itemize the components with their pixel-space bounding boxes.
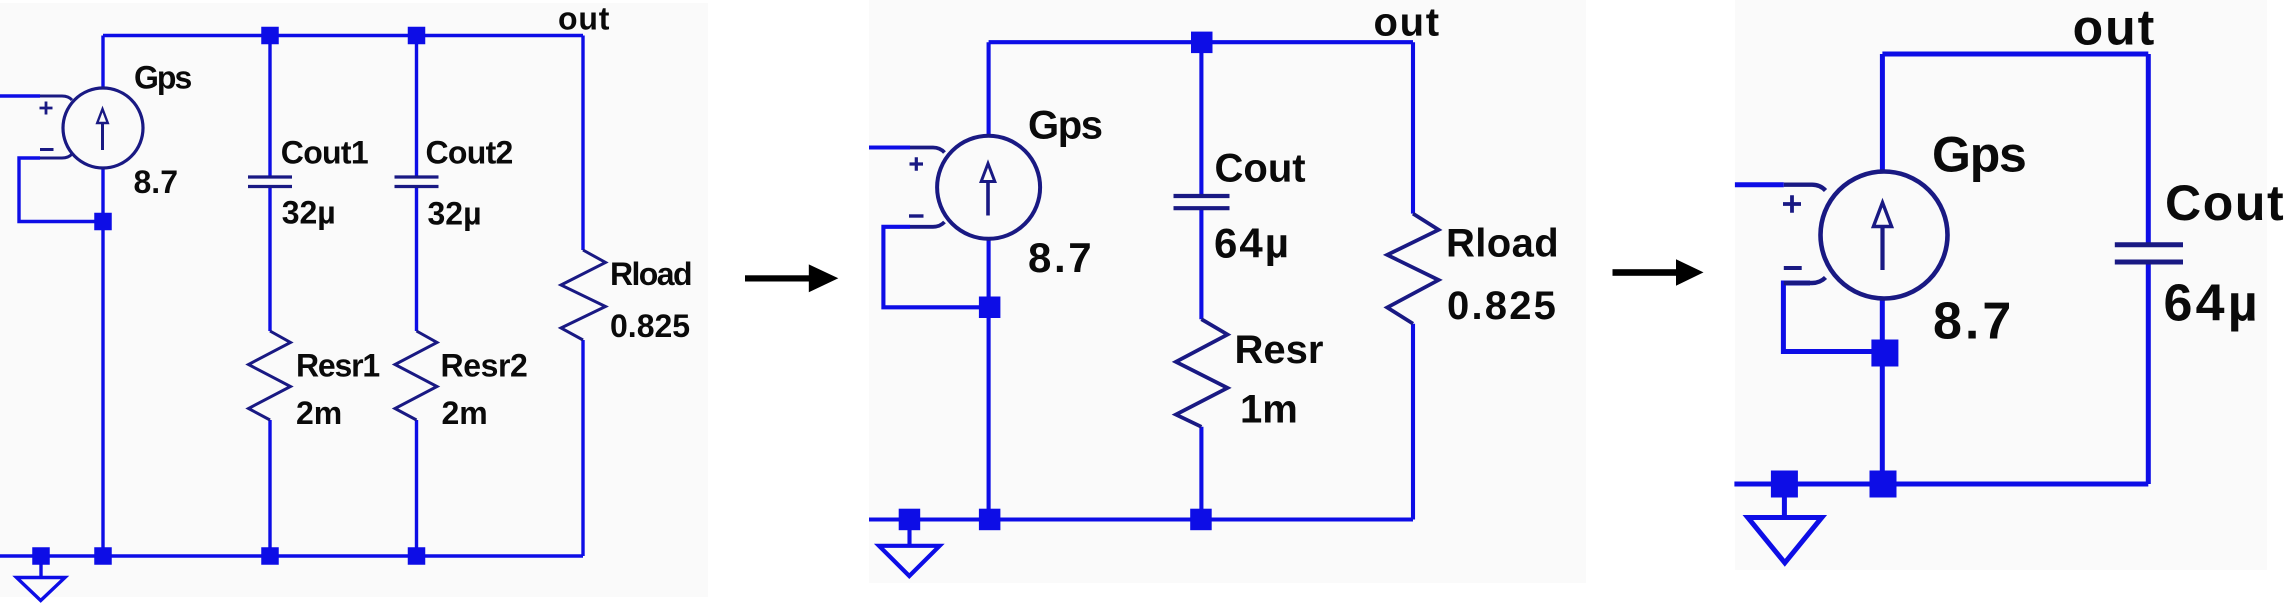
svg-text:2m: 2m — [442, 395, 488, 431]
capacitor Cout plates circuit3 — [2115, 245, 2183, 262]
svg-text:Gps: Gps — [134, 60, 191, 96]
resistor Rload1 zigzag — [561, 250, 606, 340]
wire: circuit2 Cout branch upper — [1199, 42, 1203, 196]
wire: circuit1 source top — [101, 36, 104, 89]
node junction circuit3 bottom gnd — [1771, 471, 1798, 498]
current source G1 arrow head — [97, 109, 108, 123]
svg-text:Gps: Gps — [1932, 127, 2026, 183]
current source G1 minus lead — [40, 154, 72, 158]
capacitor Cout plates circuit2 — [1174, 196, 1230, 208]
wire: circuit1 Resr2 to bottom rail — [415, 420, 418, 556]
current source G3 arrow head — [1873, 203, 1891, 227]
node junction circuit2 minus loop — [979, 297, 1001, 319]
wire: circuit1 Cout2 branch upper — [415, 36, 418, 176]
wire: circuit2 Cout to Resr — [1199, 208, 1203, 319]
current source G2 circle circuit2 — [937, 136, 1040, 239]
svg-text:0.825: 0.825 — [1447, 284, 1558, 328]
svg-text:Rload: Rload — [610, 256, 691, 292]
svg-text:Gps: Gps — [1028, 103, 1102, 147]
svg-text:Resr1: Resr1 — [296, 348, 379, 384]
plus sign circuit1 — [40, 102, 53, 115]
wire: circuit1 minus feedback loop — [19, 158, 103, 222]
wire: circuit2 Resr to bottom rail — [1199, 427, 1203, 520]
current source G1 circle circuit1 — [63, 88, 143, 168]
svg-text:Cout1: Cout1 — [281, 134, 368, 170]
svg-text:Rload: Rload — [1446, 222, 1559, 266]
svg-text:1m: 1m — [1240, 388, 1298, 432]
node junction circuit3 minus loop — [1871, 340, 1898, 367]
svg-text:Cout: Cout — [1215, 147, 1306, 191]
current source G2 minus lead — [910, 222, 945, 227]
current source G3 minus lead — [1784, 278, 1826, 284]
current source G3 arrow shaft — [1880, 228, 1884, 271]
node junction circuit3 bottom source — [1870, 471, 1897, 498]
wire: circuit2 minus feedback loop — [883, 227, 989, 307]
svg-text:Resr: Resr — [1235, 328, 1324, 372]
svg-text:32µ: 32µ — [428, 196, 482, 232]
plus sign circuit3 — [1783, 195, 1801, 213]
capacitor Cout1 plates — [248, 177, 292, 187]
node junction circuit1 top Cout2 — [408, 27, 426, 45]
current source G2 plus lead — [910, 148, 945, 153]
wire: circuit2 ground stub — [907, 528, 911, 546]
svg-text:2m: 2m — [296, 395, 342, 431]
svg-text:out: out — [1374, 0, 1441, 44]
svg-text:8.7: 8.7 — [1028, 234, 1094, 281]
current source G2 arrow shaft — [986, 182, 990, 216]
capacitor Cout2 plates — [395, 177, 439, 187]
wire: circuit1 source bottom to ground rail — [101, 168, 104, 556]
svg-text:8.7: 8.7 — [134, 164, 178, 200]
wire: circuit1 Cout1 to Resr1 — [268, 188, 271, 331]
current source G3 circle circuit3 — [1821, 172, 1948, 299]
wire: circuit3 ground stub — [1782, 494, 1787, 517]
svg-text:8.7: 8.7 — [1933, 292, 2014, 350]
node junction circuit1 minus loop — [94, 213, 112, 231]
resistor Resr2 zigzag — [395, 331, 437, 420]
wire: circuit1 plus input from left edge — [0, 94, 40, 97]
ground symbol circuit2 — [879, 546, 940, 576]
ground symbol circuit3 — [1748, 518, 1822, 563]
panel 3 background — [1735, 0, 2267, 570]
plus sign circuit2 — [910, 157, 924, 170]
wire: circuit1 Rload branch upper — [581, 36, 584, 251]
svg-text:64µ: 64µ — [2164, 275, 2261, 333]
wire: circuit3 top rail out net — [1882, 52, 2148, 57]
svg-text:Resr2: Resr2 — [441, 348, 528, 384]
arrow between panel1 and panel2 — [745, 264, 838, 292]
wire: circuit2 bottom ground rail — [869, 517, 1413, 521]
wire: circuit1 Cout2 to Resr2 — [415, 188, 418, 331]
svg-text:64µ: 64µ — [1214, 219, 1291, 266]
wire: circuit3 plus input from panel edge — [1735, 182, 1784, 187]
wire: circuit1 Rload to bottom rail — [581, 340, 584, 556]
wire: circuit2 source bottom to ground rail — [987, 239, 991, 520]
svg-text:out: out — [2073, 0, 2157, 56]
wire: circuit2 plus input from panel edge — [869, 145, 910, 149]
current source G3 plus lead — [1784, 185, 1826, 191]
resistor Resr zigzag circuit2 — [1176, 319, 1228, 427]
wire: circuit2 source top — [987, 42, 991, 136]
current source G1 arrow shaft — [101, 123, 104, 150]
wire: circuit2 top rail out net — [989, 40, 1413, 44]
node junction circuit2 top Cout — [1191, 32, 1213, 53]
wire: circuit1 Cout1 branch upper — [268, 36, 271, 176]
wire: circuit2 Rload branch upper — [1411, 42, 1415, 213]
wire: circuit1 Resr1 to bottom rail — [268, 420, 271, 556]
node junction circuit1 bottom Resr2 — [408, 547, 426, 565]
svg-text:Cout: Cout — [2165, 175, 2285, 231]
wire: circuit1 ground stub — [39, 562, 42, 577]
wire: circuit1 bottom ground rail — [0, 554, 583, 557]
wire: circuit3 minus feedback loop — [1783, 283, 1885, 352]
minus sign circuit2 — [909, 214, 924, 217]
wire: circuit3 bottom ground rail — [1734, 482, 2148, 487]
wire: circuit3 source top — [1880, 54, 1885, 172]
node junction circuit1 bottom Resr1 — [261, 547, 279, 565]
panel 2 background — [869, 0, 1586, 583]
svg-text:32µ: 32µ — [282, 195, 336, 231]
node junction circuit1 bottom source — [94, 547, 112, 565]
wire: circuit1 top rail out net — [103, 34, 583, 37]
node junction circuit2 bottom Resr — [1190, 509, 1212, 531]
node junction circuit2 bottom gnd — [899, 509, 921, 531]
current source G2 arrow head — [981, 164, 995, 182]
wire: circuit3 Cout branch upper — [2146, 54, 2151, 245]
svg-text:out: out — [558, 1, 610, 37]
node junction circuit1 bottom gnd — [32, 547, 50, 565]
wire: circuit3 Cout to bottom rail — [2146, 262, 2151, 484]
svg-text:0.825: 0.825 — [610, 308, 690, 344]
resistor Rload2 zigzag circuit2 — [1387, 214, 1438, 324]
node junction circuit1 top Cout1 — [261, 27, 279, 45]
wire: circuit3 source bottom to ground rail — [1880, 299, 1885, 485]
minus sign circuit3 — [1784, 266, 1802, 270]
ground symbol circuit1 — [17, 578, 66, 601]
node junction circuit2 bottom source — [979, 509, 1001, 531]
resistor Resr1 zigzag — [249, 331, 291, 420]
current source G1 plus lead — [40, 96, 72, 100]
wire: circuit2 Rload to bottom rail — [1411, 324, 1415, 520]
panel 1 background — [0, 3, 708, 597]
svg-text:Cout2: Cout2 — [426, 134, 513, 170]
minus sign circuit1 — [40, 148, 54, 151]
arrow between panel2 and panel3 — [1613, 259, 1704, 286]
